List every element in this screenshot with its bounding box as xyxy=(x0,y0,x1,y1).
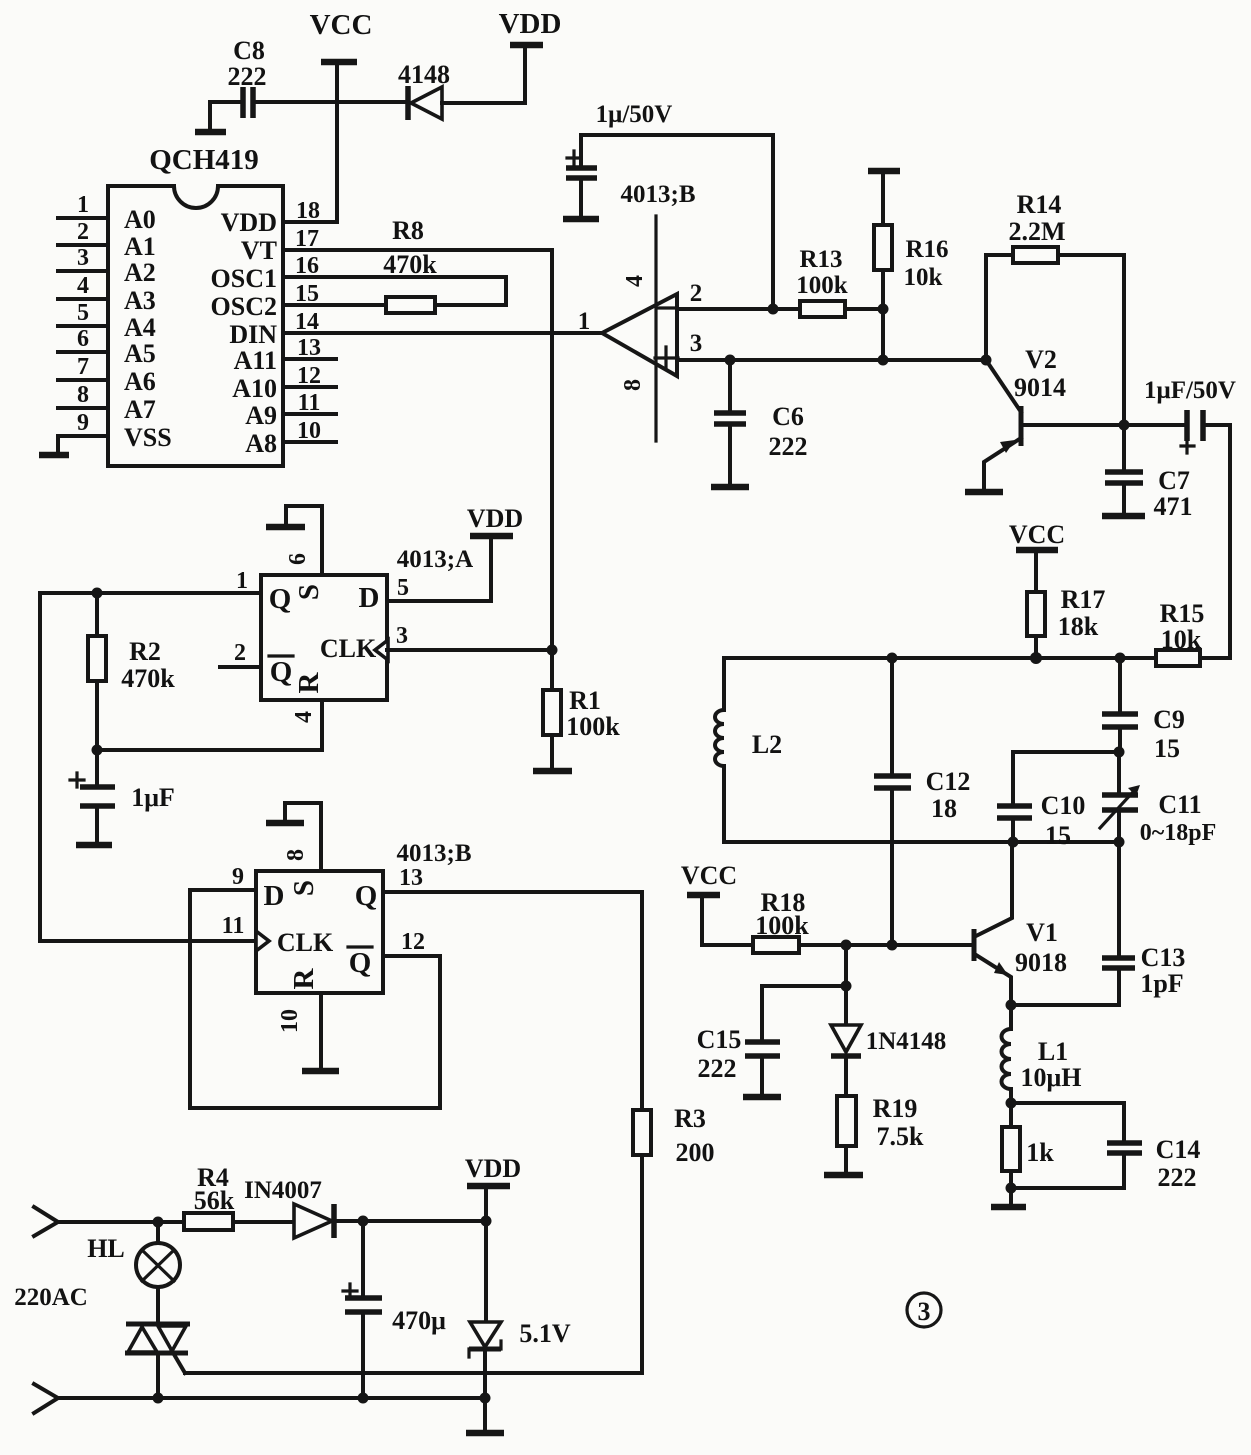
capacitor C14 222 xyxy=(1011,1103,1200,1192)
svg-text:A7: A7 xyxy=(124,395,156,424)
svg-text:Q: Q xyxy=(355,880,378,912)
junction (R2 bottom / R pin / 1uF) xyxy=(92,745,103,756)
op-amp U1 (4013;B) triangle xyxy=(602,181,696,441)
svg-text:CLK: CLK xyxy=(277,928,334,957)
svg-text:C6: C6 xyxy=(772,402,804,431)
svg-text:16: 16 xyxy=(295,253,319,279)
svg-text:R13: R13 xyxy=(799,246,842,273)
svg-text:2: 2 xyxy=(77,219,89,245)
svg-text:15: 15 xyxy=(1045,821,1071,850)
svg-text:2: 2 xyxy=(690,280,703,307)
ground (R1) xyxy=(533,768,572,775)
junction (1k bottom) xyxy=(1006,1183,1017,1194)
svg-text:VCC: VCC xyxy=(1009,520,1065,549)
ground (1uF) xyxy=(76,842,112,849)
junction (V1 emitter node) xyxy=(1006,1000,1017,1011)
svg-text:4013;B: 4013;B xyxy=(621,181,696,208)
svg-text:V1: V1 xyxy=(1026,918,1058,947)
capacitor C10 15 xyxy=(997,752,1085,850)
junction (VDD rail) xyxy=(481,1216,492,1227)
terminal 220AC line top xyxy=(34,1207,184,1236)
svg-text:A6: A6 xyxy=(124,367,156,396)
ground (C7) xyxy=(1102,513,1145,520)
power VCC (R18) xyxy=(681,861,753,945)
svg-text:12: 12 xyxy=(401,929,425,955)
svg-text:VCC: VCC xyxy=(681,861,737,890)
node 1 (comparator output) xyxy=(578,308,591,335)
svg-text:4: 4 xyxy=(291,711,317,723)
junction (C12 top) xyxy=(887,653,898,664)
svg-text:QCH419: QCH419 xyxy=(149,144,259,176)
svg-text:7.5k: 7.5k xyxy=(877,1122,925,1151)
svg-text:0~18pF: 0~18pF xyxy=(1140,820,1217,846)
svg-text:4013;B: 4013;B xyxy=(397,840,472,867)
svg-text:OSC1: OSC1 xyxy=(211,264,277,293)
svg-text:2.2M: 2.2M xyxy=(1008,217,1065,246)
wire VCC to IC pin18 xyxy=(335,62,339,222)
svg-text:D: D xyxy=(264,880,285,912)
IC pin 5 (A4) xyxy=(58,300,156,342)
svg-text:A1: A1 xyxy=(124,232,156,261)
resistor R18 100k xyxy=(753,888,974,953)
power VDD mid xyxy=(467,504,523,536)
inductor L2 xyxy=(715,658,782,842)
figure number 3 xyxy=(907,1293,941,1327)
svg-text:C9: C9 xyxy=(1153,705,1185,734)
resistor R13 100k xyxy=(796,246,883,317)
svg-text:9018: 9018 xyxy=(1015,948,1067,977)
IC pin 12 (A10) xyxy=(232,363,336,403)
resistor R4 56k xyxy=(184,1163,294,1230)
capacitor 1u/50V electrolytic xyxy=(566,101,773,309)
svg-text:10: 10 xyxy=(297,418,321,444)
diode 1N4148 xyxy=(831,986,946,1096)
junction (R13/R16) xyxy=(878,304,889,315)
ground (R19) xyxy=(824,1172,863,1179)
power VCC top xyxy=(310,9,373,62)
junction (C6 tap) xyxy=(725,355,736,366)
svg-text:4: 4 xyxy=(622,275,648,287)
svg-text:10k: 10k xyxy=(904,264,943,291)
power VDD top xyxy=(499,8,562,103)
svg-text:R8: R8 xyxy=(392,216,424,245)
ground (V2 emitter) xyxy=(965,489,1003,496)
ground (IC pin 9) xyxy=(39,436,69,455)
svg-text:CLK: CLK xyxy=(320,634,377,663)
svg-text:4: 4 xyxy=(77,273,89,299)
wire C9 node to C10 xyxy=(1013,750,1119,754)
IC pin 10 (A8) xyxy=(245,418,336,458)
junction (Q / R2 top) xyxy=(92,588,103,599)
IC pin 7 (A6) xyxy=(58,354,156,396)
svg-text:222: 222 xyxy=(228,62,267,91)
junction (1u cap / input 2) xyxy=(768,304,779,315)
junction (L1 bottom) xyxy=(1006,1098,1017,1109)
svg-text:1μF/50V: 1μF/50V xyxy=(1144,377,1236,404)
svg-text:1pF: 1pF xyxy=(1140,969,1183,998)
svg-text:C13: C13 xyxy=(1141,943,1186,972)
svg-text:18: 18 xyxy=(931,794,957,823)
pin 4 wire (R) xyxy=(97,700,322,750)
terminal 220AC line bottom xyxy=(34,1384,58,1413)
junction (C15 tap) xyxy=(841,981,852,992)
svg-text:4148: 4148 xyxy=(398,60,450,89)
svg-text:L2: L2 xyxy=(752,730,782,759)
pin 2 stub (Qbar) xyxy=(220,640,261,667)
pin 8 (S tie low) xyxy=(283,803,321,871)
svg-text:C7: C7 xyxy=(1158,466,1190,495)
resistor R2 470k xyxy=(88,593,175,750)
power VDD bottom xyxy=(465,1154,521,1221)
svg-text:3: 3 xyxy=(918,1297,931,1326)
svg-text:A0: A0 xyxy=(124,205,156,234)
svg-text:1μF: 1μF xyxy=(131,783,175,812)
flip-flop U2 (4013;A) xyxy=(261,546,473,700)
svg-text:R: R xyxy=(293,671,325,693)
diode 4148 xyxy=(398,60,525,120)
svg-text:1: 1 xyxy=(578,308,591,335)
pin 11 (CLK) label xyxy=(222,913,245,939)
junction (C10 bottom rail) xyxy=(1008,837,1019,848)
pin 1 wire (Q out) xyxy=(40,568,261,594)
svg-text:18: 18 xyxy=(296,198,320,224)
ground (mains common) xyxy=(466,1398,504,1433)
IC pin 4 (A3) xyxy=(58,273,156,315)
svg-text:10μH: 10μH xyxy=(1021,1063,1082,1092)
svg-text:DIN: DIN xyxy=(229,320,277,349)
ground (C6) xyxy=(711,484,749,491)
junction (zener bottom) xyxy=(480,1393,491,1404)
text 220AC xyxy=(14,1284,88,1311)
IC pin 9 (VSS) xyxy=(58,410,172,452)
svg-text:HL: HL xyxy=(87,1234,125,1263)
svg-text:VDD: VDD xyxy=(465,1154,521,1183)
svg-text:V2: V2 xyxy=(1025,345,1057,374)
transistor V2 9014 xyxy=(984,345,1187,490)
svg-text:6: 6 xyxy=(285,553,311,565)
pin 10 wire (R) xyxy=(277,993,321,1068)
IC pin 18 (VDD) xyxy=(221,198,337,237)
svg-text:13: 13 xyxy=(399,865,423,891)
svg-text:A9: A9 xyxy=(245,401,277,430)
svg-text:9014: 9014 xyxy=(1014,373,1066,402)
wire triac gate to R3 xyxy=(185,1371,642,1375)
junction (470u tap) xyxy=(358,1216,369,1227)
junction (R16 bottom) xyxy=(878,355,889,366)
svg-text:3: 3 xyxy=(690,330,703,357)
pin 13 wire (Q out) xyxy=(383,865,642,892)
lamp HL xyxy=(87,1222,180,1324)
svg-text:5: 5 xyxy=(77,300,89,326)
svg-text:R16: R16 xyxy=(905,236,948,263)
junction (CLK / VT / R1) xyxy=(547,645,558,656)
IC pin 14 (DIN) wire to comparator output xyxy=(229,309,602,349)
IC pin 1 (A0) xyxy=(58,192,156,234)
svg-text:A8: A8 xyxy=(245,429,277,458)
svg-text:VDD: VDD xyxy=(499,8,562,40)
capacitor C7 471 xyxy=(1105,425,1193,521)
svg-text:A5: A5 xyxy=(124,339,156,368)
IC pin 16 (OSC1) xyxy=(211,253,506,305)
svg-text:222: 222 xyxy=(698,1054,737,1083)
svg-text:5: 5 xyxy=(397,575,409,601)
pin 3 wire (CLK) xyxy=(387,623,552,650)
svg-text:8: 8 xyxy=(620,379,646,391)
capacitor 1uF electrolytic xyxy=(70,750,175,842)
resistor R16 10k xyxy=(868,171,949,360)
capacitor 1uF/50V coupling xyxy=(1144,377,1236,453)
svg-text:4013;A: 4013;A xyxy=(397,546,473,573)
svg-text:9: 9 xyxy=(232,864,244,890)
wire tank top rail xyxy=(724,656,1156,660)
junction (C11 bottom rail) xyxy=(1114,837,1125,848)
svg-text:1: 1 xyxy=(77,192,89,218)
svg-text:R3: R3 xyxy=(674,1104,706,1133)
resistor R1 100k xyxy=(543,650,620,768)
svg-text:222: 222 xyxy=(769,432,808,461)
wire tank bottom rail xyxy=(724,840,1119,844)
svg-text:2: 2 xyxy=(234,640,246,666)
capacitor C12 18 xyxy=(874,658,970,945)
capacitor C13 1pF xyxy=(1011,842,1185,1005)
IC pin 13 (A11) xyxy=(234,335,336,375)
IC pin 6 (A5) xyxy=(58,326,156,368)
svg-text:S: S xyxy=(288,880,320,896)
svg-text:1N4148: 1N4148 xyxy=(866,1028,947,1055)
svg-text:5.1V: 5.1V xyxy=(519,1319,571,1348)
svg-text:470k: 470k xyxy=(121,664,175,693)
svg-text:A3: A3 xyxy=(124,286,156,315)
svg-text:15: 15 xyxy=(295,281,319,307)
svg-text:471: 471 xyxy=(1154,492,1193,521)
svg-text:470k: 470k xyxy=(383,250,437,279)
resistor R14 2.2M xyxy=(986,190,1124,425)
svg-text:R: R xyxy=(288,967,320,989)
pin 6 (S tie low) xyxy=(285,506,322,575)
svg-text:100k: 100k xyxy=(796,272,848,299)
junction (C9 top / R15) xyxy=(1115,653,1126,664)
ground (S pin B) xyxy=(266,820,304,827)
svg-text:56k: 56k xyxy=(194,1186,235,1215)
svg-text:11: 11 xyxy=(298,390,321,416)
ground (pin 10) xyxy=(302,1068,339,1075)
IC pin 8 (A7) xyxy=(58,382,156,424)
svg-text:1k: 1k xyxy=(1026,1138,1054,1167)
svg-text:C11: C11 xyxy=(1158,790,1201,819)
svg-text:R17: R17 xyxy=(1061,585,1106,614)
triac VS xyxy=(125,1324,190,1398)
ground (S pin A) xyxy=(266,524,305,531)
svg-text:222: 222 xyxy=(1158,1163,1197,1192)
svg-text:12: 12 xyxy=(297,363,321,389)
wire VT vertical to CLK node xyxy=(550,250,554,649)
capacitor 470u electrolytic xyxy=(343,1221,446,1398)
svg-text:200: 200 xyxy=(676,1138,715,1167)
svg-text:R1: R1 xyxy=(569,686,601,715)
IC pin 11 (A9) xyxy=(245,390,336,430)
svg-text:9: 9 xyxy=(77,410,89,436)
junction (470u bottom) xyxy=(358,1393,369,1404)
IC pin 15 (OSC2) xyxy=(211,281,386,321)
svg-text:VDD: VDD xyxy=(467,504,523,533)
svg-text:470μ: 470μ xyxy=(392,1306,446,1335)
flip-flop U3 (4013;B) xyxy=(256,840,472,993)
wire bottom rail xyxy=(58,1396,485,1400)
svg-text:1: 1 xyxy=(236,568,248,594)
IC pin 2 (A1) xyxy=(58,219,156,261)
capacitor C6 222 xyxy=(714,360,808,484)
svg-text:15: 15 xyxy=(1154,734,1180,763)
wire bias node down xyxy=(844,945,848,986)
power VCC (R17) xyxy=(1009,520,1065,550)
svg-text:14: 14 xyxy=(295,309,319,335)
svg-text:18k: 18k xyxy=(1058,612,1099,641)
resistor R15 10k xyxy=(1156,599,1230,666)
variable capacitor C11 0~18pF xyxy=(1100,752,1216,846)
svg-text:8: 8 xyxy=(283,849,309,861)
capacitor C8 222 xyxy=(210,36,406,130)
junction (C12 / V1 base) xyxy=(887,940,898,951)
diode IN4007 xyxy=(244,1177,486,1238)
wire Q(A) down to CLK(B) xyxy=(40,593,256,941)
svg-text:3: 3 xyxy=(396,623,408,649)
junction (R17 bottom) xyxy=(1030,652,1042,664)
svg-text:C10: C10 xyxy=(1041,791,1086,820)
svg-text:A10: A10 xyxy=(232,374,277,403)
zener diode 5.1V xyxy=(469,1221,571,1398)
svg-text:13: 13 xyxy=(297,335,321,361)
svg-text:7: 7 xyxy=(77,354,89,380)
svg-text:6: 6 xyxy=(77,326,89,352)
svg-text:C14: C14 xyxy=(1156,1135,1201,1164)
svg-text:11: 11 xyxy=(222,913,245,939)
svg-text:VSS: VSS xyxy=(124,423,172,452)
junction (V2 base node) xyxy=(981,355,992,366)
resistor R17 18k xyxy=(1027,550,1105,658)
svg-text:100k: 100k xyxy=(566,712,620,741)
resistor R3 200 xyxy=(633,892,715,1373)
svg-text:10: 10 xyxy=(277,1009,303,1033)
junction (C9 bottom node) xyxy=(1114,747,1125,758)
ground (1k/C14) xyxy=(991,1188,1026,1207)
junction (HL tap) xyxy=(153,1217,164,1228)
svg-text:220AC: 220AC xyxy=(14,1284,88,1311)
IC pin 3 (A2) xyxy=(58,245,156,287)
resistor R19 7.5k xyxy=(837,1094,924,1172)
IC pin 17 (VT) xyxy=(241,226,552,265)
svg-text:S: S xyxy=(293,584,325,600)
svg-text:L1: L1 xyxy=(1038,1037,1068,1066)
resistor 1k xyxy=(1002,1103,1054,1188)
node 3 (non-inverting input) wire to V2 base xyxy=(677,330,986,360)
pin 5 wire (D to VDD) xyxy=(387,537,491,601)
svg-text:R2: R2 xyxy=(129,637,161,666)
svg-text:VDD: VDD xyxy=(221,208,277,237)
svg-text:C15: C15 xyxy=(697,1025,742,1054)
svg-text:A4: A4 xyxy=(124,313,156,342)
ground (C15) xyxy=(743,1094,781,1101)
ground (C8) xyxy=(195,129,226,136)
junction (R18 / bias divider) xyxy=(841,940,852,951)
junction (triac bottom) xyxy=(153,1393,164,1404)
pin 9 wire (D) loop to pin 12 (Qbar) xyxy=(190,864,440,1108)
svg-text:17: 17 xyxy=(295,226,319,252)
svg-text:IN4007: IN4007 xyxy=(244,1177,322,1204)
svg-text:Q: Q xyxy=(270,656,293,688)
svg-text:A11: A11 xyxy=(234,346,277,375)
svg-text:R19: R19 xyxy=(873,1094,918,1123)
svg-text:A2: A2 xyxy=(124,258,156,287)
svg-text:C8: C8 xyxy=(233,36,265,65)
svg-text:Q: Q xyxy=(269,583,292,615)
transistor V1 9018 xyxy=(974,842,1067,1005)
wire output column to R15 xyxy=(1228,425,1232,658)
svg-text:D: D xyxy=(359,582,380,614)
inductor L1 10uH xyxy=(1002,1005,1082,1103)
capacitor C15 222 xyxy=(697,986,846,1094)
resistor R8 470k xyxy=(383,216,437,313)
svg-text:VT: VT xyxy=(241,236,277,265)
svg-text:3: 3 xyxy=(77,245,89,271)
svg-text:OSC2: OSC2 xyxy=(211,292,277,321)
ground (1u/50V) xyxy=(563,216,599,223)
capacitor C9 15 xyxy=(1102,658,1185,763)
svg-text:1μ/50V: 1μ/50V xyxy=(596,101,673,128)
svg-text:VCC: VCC xyxy=(310,9,373,41)
svg-text:C12: C12 xyxy=(926,767,971,796)
svg-text:Q: Q xyxy=(349,947,372,979)
svg-text:R14: R14 xyxy=(1017,190,1062,219)
junction (V2 output node) xyxy=(1119,420,1130,431)
IC QCH419 body xyxy=(108,144,283,466)
svg-text:R15: R15 xyxy=(1160,599,1205,628)
node 2 (inverting input) wire xyxy=(677,280,800,309)
svg-text:8: 8 xyxy=(77,382,89,408)
